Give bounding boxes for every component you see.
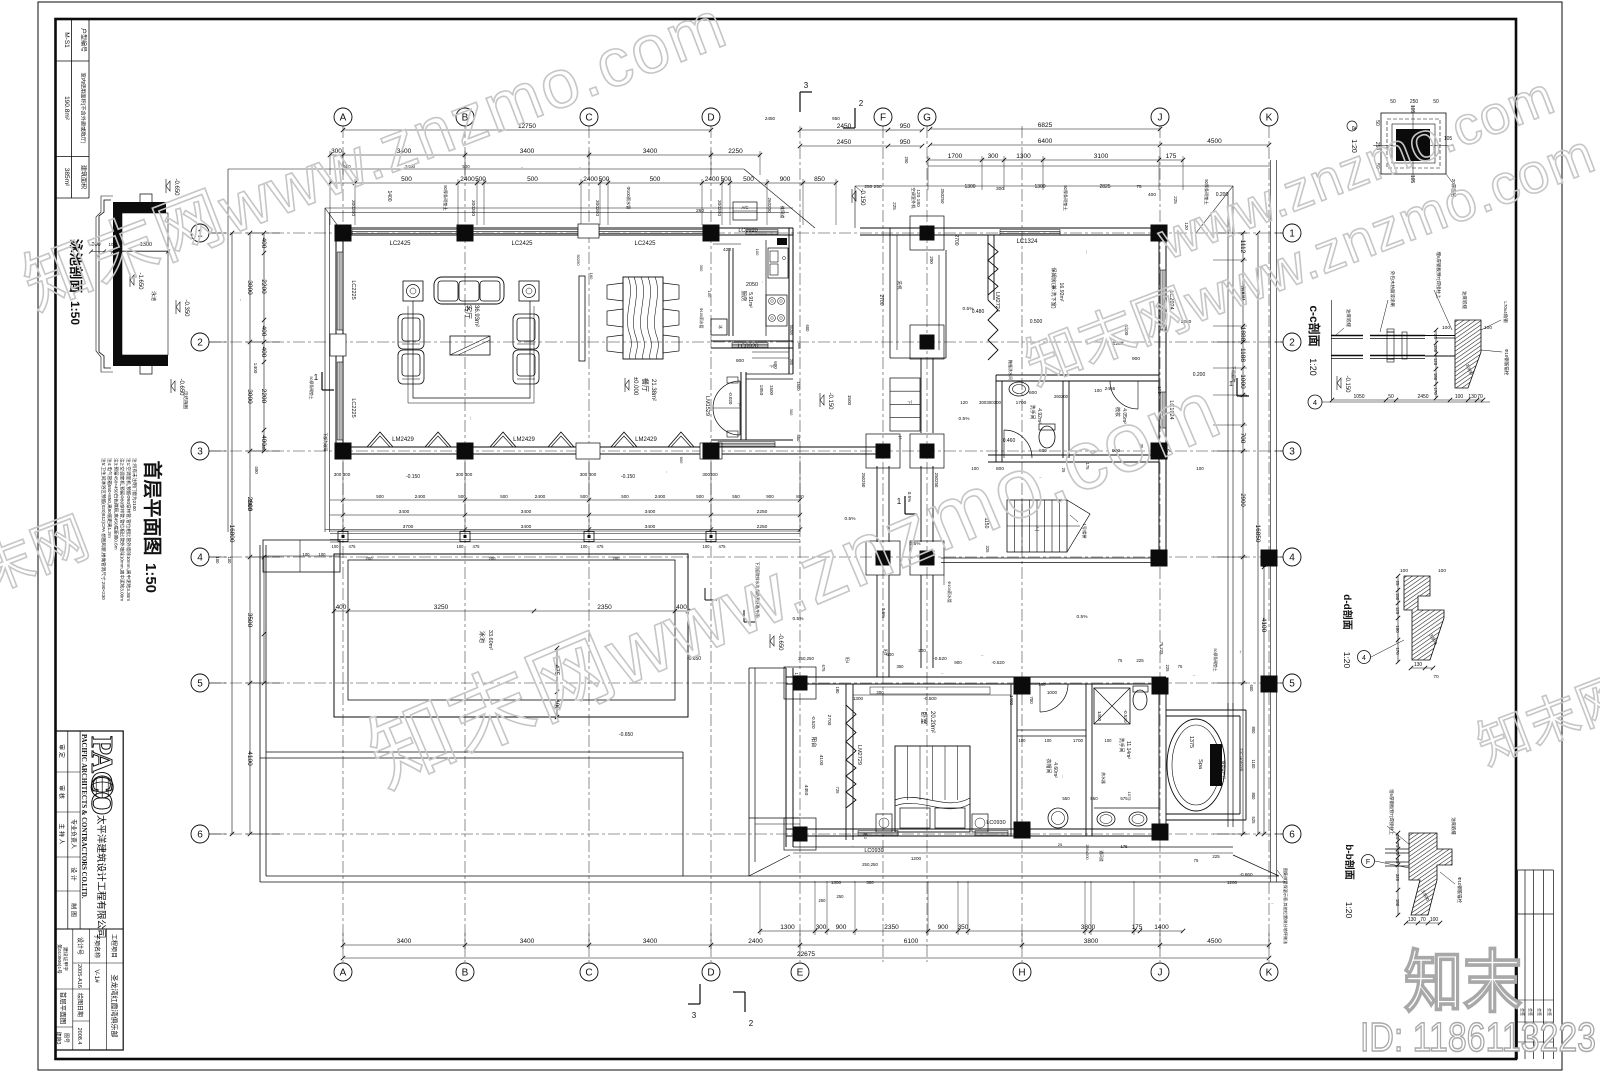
svg-text:2825: 2825 bbox=[1099, 184, 1110, 190]
svg-text:LC2425: LC2425 bbox=[389, 241, 411, 247]
svg-text:2465: 2465 bbox=[1105, 386, 1116, 392]
level -0.650 top bbox=[166, 181, 170, 191]
svg-text:4100: 4100 bbox=[818, 755, 824, 766]
dim chain top row1 bbox=[343, 129, 711, 131]
svg-text:客厅: 客厅 bbox=[464, 305, 473, 319]
dim chain top row3 bbox=[330, 182, 836, 184]
suite north wall right part bbox=[1015, 676, 1166, 678]
level -0.650 bottom bbox=[171, 381, 175, 391]
svg-text:6825: 6825 bbox=[1038, 122, 1053, 129]
scattered annotation texts bbox=[215, 116, 1274, 905]
svg-text:Spa: Spa bbox=[1197, 759, 1203, 770]
closet stool bbox=[1048, 808, 1068, 828]
svg-text:3250: 3250 bbox=[434, 604, 449, 611]
column D3 bbox=[703, 443, 720, 460]
svg-text:卧室: 卧室 bbox=[920, 712, 929, 726]
svg-text:2005-A16: 2005-A16 bbox=[76, 964, 82, 988]
svg-text:厨房: 厨房 bbox=[740, 290, 748, 302]
svg-text:225: 225 bbox=[1165, 665, 1170, 673]
svg-text:500: 500 bbox=[376, 494, 384, 499]
eave west vertical bbox=[227, 169, 229, 532]
svg-text:260x200: 260x200 bbox=[1085, 844, 1090, 860]
svg-text:500: 500 bbox=[696, 494, 704, 499]
svg-text:50250: 50250 bbox=[576, 254, 581, 266]
svg-text:550: 550 bbox=[1062, 796, 1070, 801]
svg-text:2250: 2250 bbox=[728, 148, 743, 155]
svg-text:100: 100 bbox=[1400, 568, 1408, 574]
lobby top wall bbox=[746, 373, 793, 375]
svg-text:100: 100 bbox=[755, 249, 760, 256]
svg-text:175: 175 bbox=[1132, 924, 1143, 931]
svg-text:100: 100 bbox=[707, 291, 712, 298]
svg-text:50厚条砌垫土: 50厚条砌垫土 bbox=[309, 376, 314, 399]
svg-text:25: 25 bbox=[1395, 581, 1400, 586]
svg-text:400: 400 bbox=[260, 347, 267, 358]
svg-text:F: F bbox=[880, 113, 886, 124]
svg-text:-0.650: -0.650 bbox=[619, 732, 633, 738]
svg-text:4450: 4450 bbox=[803, 785, 809, 796]
eave corner diagonal right block bbox=[1196, 186, 1233, 233]
svg-text:105: 105 bbox=[1409, 105, 1415, 114]
svg-text:LM2429: LM2429 bbox=[513, 437, 535, 443]
suite south wall right part bbox=[1015, 828, 1166, 830]
svg-text:-0.150: -0.150 bbox=[406, 474, 420, 480]
column D1 bbox=[703, 225, 720, 242]
svg-text:4: 4 bbox=[1313, 398, 1317, 407]
svg-text:300: 300 bbox=[816, 924, 827, 931]
wall G between rows3-4 bbox=[920, 466, 922, 542]
svg-text:385m²: 385m² bbox=[63, 168, 70, 187]
svg-text:0.500: 0.500 bbox=[1030, 319, 1043, 325]
svg-text:1400: 1400 bbox=[1009, 695, 1014, 706]
svg-text:6100: 6100 bbox=[904, 938, 919, 945]
svg-text:50: 50 bbox=[1390, 99, 1396, 105]
svg-text:1188: 1188 bbox=[1239, 348, 1246, 362]
eave outline upper-left block bbox=[325, 207, 793, 209]
c-c dims vertical bbox=[1435, 330, 1437, 398]
svg-text:LM2429: LM2429 bbox=[635, 437, 657, 443]
svg-text:50厚条砌垫土: 50厚条砌垫土 bbox=[442, 185, 449, 211]
svg-text:320: 320 bbox=[1395, 874, 1400, 882]
svg-text:800: 800 bbox=[736, 358, 744, 364]
svg-text:Φ100雨水管: Φ100雨水管 bbox=[699, 308, 704, 329]
svg-text:2250: 2250 bbox=[757, 509, 768, 515]
svg-text:250: 250 bbox=[837, 894, 845, 899]
svg-text:1:50: 1:50 bbox=[142, 563, 159, 593]
svg-text:ID: 1186113223: ID: 1186113223 bbox=[1360, 1014, 1596, 1060]
svg-text:3: 3 bbox=[692, 1011, 697, 1020]
suite toilet bbox=[1133, 690, 1147, 710]
trellis posts bbox=[338, 532, 348, 542]
svg-text:2200: 2200 bbox=[260, 389, 267, 404]
svg-text:200: 200 bbox=[613, 556, 621, 561]
title block frame bbox=[56, 731, 123, 1050]
d-d bubble 4 bbox=[1358, 651, 1371, 664]
kitchen south wall + window LC0920 bbox=[711, 340, 793, 342]
svg-text:100: 100 bbox=[457, 544, 465, 549]
svg-text:3400: 3400 bbox=[521, 524, 532, 530]
svg-text:100: 100 bbox=[1039, 682, 1047, 687]
svg-text:70: 70 bbox=[1433, 674, 1439, 680]
bedroom closet line bbox=[853, 694, 1011, 696]
svg-text:3400: 3400 bbox=[399, 509, 410, 515]
svg-text:1300: 1300 bbox=[964, 184, 975, 190]
svg-text:70: 70 bbox=[1477, 394, 1483, 400]
column G3 bbox=[910, 434, 944, 468]
deck ledge top-left bbox=[263, 540, 340, 572]
svg-text:C: C bbox=[585, 968, 592, 979]
svg-text:钢骨架栏杆: 钢骨架栏杆 bbox=[1221, 761, 1226, 780]
svg-text:J: J bbox=[1158, 968, 1163, 979]
svg-text:LM2724: LM2724 bbox=[994, 292, 1000, 312]
svg-text:2: 2 bbox=[1289, 338, 1295, 349]
svg-text:设计号: 设计号 bbox=[76, 937, 84, 955]
svg-text:500: 500 bbox=[527, 176, 538, 183]
svg-text:D: D bbox=[707, 113, 714, 124]
svg-text:300300: 300300 bbox=[716, 200, 722, 216]
svg-text:200: 200 bbox=[366, 556, 374, 561]
fridge box bbox=[711, 319, 727, 335]
svg-text:-0.520: -0.520 bbox=[1123, 709, 1128, 722]
svg-text:300: 300 bbox=[996, 186, 1004, 192]
svg-text:圣龙湾红霞湾俱乐部: 圣龙湾红霞湾俱乐部 bbox=[110, 975, 119, 1038]
svg-text:泳池: 泳池 bbox=[150, 291, 157, 301]
svg-text:2900: 2900 bbox=[246, 499, 252, 510]
svg-text:100: 100 bbox=[1019, 738, 1027, 743]
svg-text:LM2729: LM2729 bbox=[856, 745, 862, 765]
sofa three-seat bbox=[434, 277, 504, 304]
svg-text:900: 900 bbox=[938, 924, 949, 931]
svg-text:维风道: 维风道 bbox=[779, 206, 786, 219]
svg-text:B: B bbox=[462, 968, 469, 979]
svg-text:2: 2 bbox=[859, 99, 864, 108]
svg-text:油膏嵌缝: 油膏嵌缝 bbox=[1450, 817, 1457, 835]
svg-text:1200: 1200 bbox=[911, 856, 922, 861]
pool section top lug bbox=[140, 194, 152, 202]
svg-text:16850: 16850 bbox=[1254, 524, 1261, 542]
section flag 1 mid bbox=[904, 496, 906, 514]
svg-text:注:所有未注明门窗为2100: 注:所有未注明门窗为2100 bbox=[131, 458, 138, 511]
south wall row3 right block bbox=[988, 454, 1159, 456]
svg-text:-0.150: -0.150 bbox=[827, 392, 833, 410]
svg-text:±0.000: ±0.000 bbox=[469, 416, 471, 419]
svg-text:100: 100 bbox=[581, 544, 589, 549]
folding door LM2724 bbox=[988, 243, 998, 295]
column G2 bbox=[910, 325, 944, 359]
closet room walls bbox=[1010, 684, 1012, 836]
svg-text:专业负责人: 专业负责人 bbox=[70, 819, 78, 849]
svg-text:180: 180 bbox=[1433, 373, 1438, 381]
trellis walkway band bbox=[330, 531, 800, 542]
svg-text:2700: 2700 bbox=[826, 715, 832, 726]
deck west edge bbox=[259, 545, 261, 882]
svg-text:16.92m²: 16.92m² bbox=[1058, 282, 1064, 301]
column F3 bbox=[866, 434, 900, 468]
svg-text:埋6厚钢板预T|焊接柱上: 埋6厚钢板预T|焊接柱上 bbox=[1388, 789, 1395, 835]
svg-text:室内使用面积(不含外廊或敞厅): 室内使用面积(不含外廊或敞厅) bbox=[80, 73, 88, 144]
south wall notches bbox=[576, 443, 600, 459]
svg-text:25: 25 bbox=[1433, 334, 1438, 339]
balcony partition x=846 bbox=[845, 684, 847, 840]
svg-text:2400: 2400 bbox=[583, 176, 598, 183]
d-d dims bbox=[1397, 576, 1399, 662]
svg-text:170: 170 bbox=[1433, 387, 1438, 395]
svg-text:100: 100 bbox=[332, 544, 340, 549]
svg-text:900: 900 bbox=[780, 176, 791, 183]
bath west wall bbox=[995, 375, 997, 462]
svg-text:225: 225 bbox=[1173, 196, 1178, 204]
svg-text:25: 25 bbox=[1395, 835, 1400, 840]
window LC1324 bbox=[1000, 229, 1060, 231]
sofa rug boundary bbox=[413, 301, 530, 398]
svg-text:3000: 3000 bbox=[246, 280, 253, 295]
svg-text:3: 3 bbox=[1289, 447, 1295, 458]
svg-text:1号楼梯: 1号楼梯 bbox=[1081, 524, 1088, 539]
svg-text:600: 600 bbox=[1249, 685, 1254, 693]
b-b bubble F bbox=[1362, 855, 1375, 868]
d-d hatched shape bbox=[1404, 576, 1444, 660]
svg-text:75: 75 bbox=[1136, 184, 1142, 189]
site boundary double line right bbox=[1270, 160, 1272, 882]
svg-text:3400: 3400 bbox=[645, 509, 656, 515]
svg-text:250: 250 bbox=[819, 898, 827, 903]
dim chain left sub bbox=[263, 233, 265, 451]
svg-text:埋6厚钢板预T|焊接柱上: 埋6厚钢板预T|焊接柱上 bbox=[1435, 252, 1442, 299]
svg-text:170: 170 bbox=[1395, 647, 1400, 655]
svg-text:制 图: 制 图 bbox=[70, 903, 78, 917]
svg-text:LC2425: LC2425 bbox=[634, 241, 656, 247]
svg-text:5.91m²: 5.91m² bbox=[747, 292, 753, 308]
svg-text:1400: 1400 bbox=[252, 363, 258, 374]
svg-text:100: 100 bbox=[1105, 738, 1113, 743]
svg-text:2050: 2050 bbox=[746, 282, 758, 288]
level -0.350 bbox=[176, 302, 180, 312]
b-b hatched shape bbox=[1409, 833, 1452, 915]
svg-text:-0.520: -0.520 bbox=[991, 660, 1004, 665]
bath/dress partition y=375 bbox=[996, 374, 1159, 376]
svg-text:70: 70 bbox=[1420, 917, 1426, 923]
svg-text:首层平面图: 首层平面图 bbox=[59, 992, 68, 1025]
svg-text:400: 400 bbox=[254, 466, 259, 474]
svg-text:725: 725 bbox=[835, 787, 840, 795]
svg-text:1300: 1300 bbox=[853, 696, 864, 701]
svg-text:1050: 1050 bbox=[1353, 394, 1364, 400]
svg-text:500: 500 bbox=[721, 176, 732, 183]
pool deck south edge bbox=[266, 751, 683, 753]
bath door arc bbox=[1003, 430, 1005, 458]
c-c level flag bbox=[1337, 378, 1341, 388]
sofa corner table left bbox=[403, 281, 423, 301]
svg-text:250: 250 bbox=[904, 157, 909, 165]
svg-text:ZJC140833东: ZJC140833东 bbox=[1239, 748, 1244, 772]
kitchen stove bbox=[766, 295, 787, 326]
column J6 bbox=[1152, 824, 1169, 841]
svg-text:950: 950 bbox=[900, 139, 911, 146]
svg-text:130: 130 bbox=[1468, 394, 1477, 400]
svg-text:190.8m²: 190.8m² bbox=[63, 96, 70, 121]
svg-text:900: 900 bbox=[954, 660, 962, 665]
svg-text:400: 400 bbox=[260, 326, 267, 337]
window LC2225 upper bbox=[336, 252, 338, 330]
PACO globe bbox=[91, 776, 113, 798]
svg-text:1:20: 1:20 bbox=[1308, 358, 1318, 376]
svg-text:300 300: 300 300 bbox=[456, 472, 473, 477]
svg-text:2008.4: 2008.4 bbox=[76, 1028, 82, 1045]
svg-text:建设证甲字: 建设证甲字 bbox=[62, 947, 69, 971]
laundry walls at G bbox=[889, 228, 891, 358]
eave outline right block bbox=[855, 185, 1233, 187]
svg-text:E: E bbox=[797, 968, 804, 979]
vertical grid lines bbox=[343, 126, 1269, 962]
svg-text:-0.520: -0.520 bbox=[941, 673, 944, 675]
detail a column footing bbox=[1373, 105, 1454, 182]
grid bubbles top bbox=[334, 108, 1278, 126]
svg-text:2400: 2400 bbox=[460, 176, 475, 183]
svg-text:1700: 1700 bbox=[948, 153, 963, 160]
svg-text:21.38m²: 21.38m² bbox=[650, 379, 656, 401]
svg-text:J: J bbox=[1158, 113, 1163, 124]
small stair west of room bbox=[890, 378, 920, 431]
b-b rails bbox=[1385, 848, 1409, 850]
svg-text:225: 225 bbox=[892, 202, 897, 210]
svg-text:-0.800: -0.800 bbox=[1271, 903, 1274, 905]
dressing door arc bbox=[1110, 380, 1138, 382]
svg-text:36.93m²: 36.93m² bbox=[473, 305, 479, 327]
svg-text:4100: 4100 bbox=[1260, 618, 1267, 633]
svg-text:4.60m²: 4.60m² bbox=[1052, 762, 1058, 778]
svg-text:260200: 260200 bbox=[1054, 394, 1069, 399]
svg-text:-0.350: -0.350 bbox=[183, 299, 189, 317]
svg-text:2450: 2450 bbox=[1417, 394, 1428, 400]
kitchen eave diagonal bbox=[744, 169, 815, 228]
window LC0930 left bbox=[858, 830, 898, 832]
svg-text:600: 600 bbox=[1029, 390, 1037, 396]
svg-text:300300: 300300 bbox=[702, 472, 718, 477]
svg-text:1400: 1400 bbox=[1154, 924, 1169, 931]
svg-text:475: 475 bbox=[349, 544, 357, 549]
svg-text:1400: 1400 bbox=[386, 190, 392, 201]
svg-text:LC0920: LC0920 bbox=[737, 344, 759, 350]
svg-text:Φ10钢筋锚栓: Φ10钢筋锚栓 bbox=[1503, 349, 1510, 376]
PACO logo letters bbox=[55, 734, 120, 1045]
svg-text:绘图日期: 绘图日期 bbox=[76, 993, 84, 1017]
steps down marks bbox=[752, 357, 789, 359]
svg-text:c-c剖面: c-c剖面 bbox=[1307, 305, 1322, 346]
svg-text:1300: 1300 bbox=[780, 924, 795, 931]
pool section coping profile bbox=[99, 200, 111, 368]
svg-text:1000: 1000 bbox=[1047, 690, 1058, 695]
svg-text:2450: 2450 bbox=[837, 123, 852, 130]
east wall right block bbox=[1158, 228, 1160, 565]
deck corner diagonals bbox=[749, 855, 790, 876]
beam row4 G-J bbox=[941, 557, 1152, 559]
bath toilet bbox=[1039, 426, 1055, 448]
svg-text:200: 200 bbox=[489, 556, 497, 561]
svg-text:3400: 3400 bbox=[645, 524, 656, 530]
svg-text:-0.150: -0.150 bbox=[1344, 375, 1350, 393]
door LM1529 double swing bbox=[739, 381, 741, 435]
sofa corner table right bbox=[519, 281, 539, 301]
svg-text:75: 75 bbox=[1395, 843, 1400, 848]
svg-text:1300: 1300 bbox=[831, 880, 842, 885]
svg-text:800: 800 bbox=[796, 494, 804, 499]
room partition west (x=988) bbox=[987, 235, 989, 300]
svg-text:户型编号: 户型编号 bbox=[80, 28, 88, 52]
svg-text:100: 100 bbox=[215, 557, 220, 565]
dim chain bottom row2 bbox=[343, 944, 1269, 946]
dining chairs right bbox=[663, 283, 679, 301]
terrace west wall lower block bbox=[785, 668, 787, 847]
kitchen east wall bbox=[788, 228, 790, 374]
wall F between rows3-4 bbox=[876, 466, 878, 542]
svg-text:2400: 2400 bbox=[748, 938, 763, 945]
svg-text:泳池: 泳池 bbox=[478, 631, 486, 643]
svg-text:4500: 4500 bbox=[1207, 938, 1222, 945]
column B1 bbox=[457, 225, 474, 242]
svg-text:1: 1 bbox=[314, 373, 319, 382]
spa tub bbox=[1167, 719, 1225, 811]
svg-text:4: 4 bbox=[1362, 655, 1366, 662]
section flag 2 top bbox=[854, 108, 856, 128]
svg-text:225: 225 bbox=[1212, 854, 1220, 859]
svg-text:500: 500 bbox=[650, 176, 661, 183]
svg-text:1375: 1375 bbox=[1188, 736, 1194, 748]
svg-text:100: 100 bbox=[1196, 466, 1204, 471]
pool section bottom lug bbox=[140, 366, 152, 374]
svg-text:冰: 冰 bbox=[718, 325, 724, 329]
svg-text:建筑面积: 建筑面积 bbox=[80, 165, 88, 189]
svg-text:洗手间: 洗手间 bbox=[1118, 737, 1125, 752]
svg-text:外包木枋腐漆涂刷: 外包木枋腐漆涂刷 bbox=[1389, 271, 1396, 307]
svg-text:50200: 50200 bbox=[789, 325, 793, 336]
svg-text:900: 900 bbox=[836, 924, 847, 931]
svg-text:5: 5 bbox=[197, 679, 203, 690]
svg-text:油膏嵌缝: 油膏嵌缝 bbox=[1345, 309, 1352, 327]
svg-text:2700: 2700 bbox=[953, 234, 959, 245]
svg-text:75,225: 75,225 bbox=[1159, 642, 1164, 655]
wardrobe door arc suite bbox=[1039, 684, 1041, 712]
bed bbox=[895, 746, 970, 832]
svg-text:4.92m²: 4.92m² bbox=[1036, 408, 1042, 424]
vent shaft black box bbox=[777, 238, 787, 245]
svg-text:100: 100 bbox=[319, 552, 327, 557]
kitchen west partition bbox=[728, 248, 730, 336]
main stair bbox=[1007, 500, 1090, 552]
svg-text:见结施图: 见结施图 bbox=[182, 391, 189, 409]
svg-text:M-S1: M-S1 bbox=[63, 32, 70, 48]
column E6 bbox=[784, 818, 816, 850]
svg-text:首层平面图: 首层平面图 bbox=[141, 460, 164, 555]
svg-text:LC0930: LC0930 bbox=[986, 820, 1005, 826]
svg-text:阳3: 阳3 bbox=[883, 649, 889, 656]
svg-text:0.480: 0.480 bbox=[972, 309, 985, 315]
corner detail marks pool bbox=[704, 588, 706, 600]
svg-text:1300: 1300 bbox=[1016, 153, 1031, 160]
svg-text:600: 600 bbox=[773, 361, 778, 369]
svg-text:2400: 2400 bbox=[415, 494, 426, 500]
svg-text:0.5%: 0.5% bbox=[959, 416, 971, 422]
svg-text:6: 6 bbox=[1289, 830, 1295, 841]
window LC2225 lower bbox=[336, 362, 338, 440]
svg-text:125: 125 bbox=[1433, 358, 1438, 366]
svg-text:6400: 6400 bbox=[1038, 138, 1053, 145]
column B3 bbox=[457, 443, 474, 460]
svg-text:500: 500 bbox=[475, 176, 486, 183]
svg-text:-0.520: -0.520 bbox=[981, 655, 984, 657]
svg-text:260: 260 bbox=[696, 208, 704, 214]
window LC2425 B-C bbox=[473, 229, 578, 231]
svg-text:260200: 260200 bbox=[767, 197, 772, 213]
